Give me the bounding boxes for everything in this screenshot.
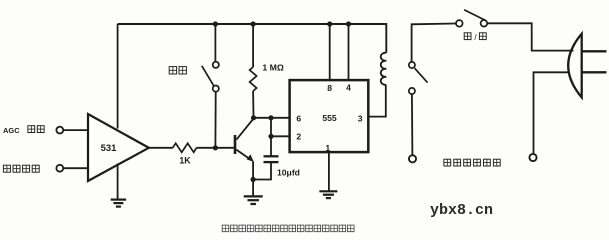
- wire pin 2: [271, 135, 291, 137]
- node junction rail/pin4: [346, 21, 351, 26]
- pin 2 label: [296, 132, 301, 142]
- node junction rail/pushbutton: [213, 21, 218, 26]
- wire pushbutton to node B: [214, 92, 216, 148]
- wire AGC input to op-amp: [63, 129, 88, 131]
- wire pin 1 to ground: [328, 152, 330, 191]
- node reference input terminal: [56, 165, 63, 172]
- pin 8 label: [327, 83, 332, 93]
- svg-text:4: 4: [346, 83, 351, 93]
- svg-text:1: 1: [325, 143, 330, 153]
- inductor K1 relay coil: [381, 53, 387, 85]
- label watermark ybx8.cn: [430, 202, 493, 219]
- svg-text:ybx8.cn: ybx8.cn: [430, 202, 493, 219]
- wire top supply rail: [118, 23, 386, 25]
- ground emitter: [244, 196, 263, 204]
- wire rail to pin 4: [348, 24, 350, 81]
- wire relay contact top: [412, 24, 456, 63]
- label pushbutton (按钮): [169, 67, 186, 74]
- svg-text:3: 3: [358, 114, 363, 124]
- label C1 value 10ufd: [277, 167, 300, 177]
- IC U2 555 timer body: [290, 80, 369, 152]
- pin 4 label: [346, 83, 351, 93]
- label caption (设置开关在电视台停止广播后立即断开): [222, 225, 354, 232]
- wire reference input to op-amp: [63, 167, 88, 169]
- wire node C to pin 6: [254, 117, 291, 119]
- wire junction down to capacitor: [270, 118, 272, 156]
- label on/off (通/断): [464, 33, 486, 42]
- node junction emitter/capacitor: [251, 177, 256, 182]
- capacitor C1 10ufd: [264, 156, 279, 162]
- svg-text:1K: 1K: [179, 156, 191, 166]
- switch S1 pushbutton: [202, 62, 219, 92]
- svg-text:8: 8: [327, 83, 332, 93]
- label reference voltage (参考电压): [3, 165, 39, 172]
- label R2 value 1 Mohm: [262, 63, 283, 73]
- node junction rail/pin8: [327, 21, 332, 26]
- wire pin 3 to coil: [368, 85, 386, 117]
- resistor R2 1M: [250, 67, 257, 91]
- wire op-amp output: [149, 147, 173, 149]
- pin 6 label: [296, 114, 301, 124]
- pin 1 label: [325, 143, 330, 153]
- connector P1 AC plug: [568, 34, 606, 98]
- wire rail to R2: [252, 24, 254, 67]
- op-amp U1 531: [88, 114, 149, 181]
- wire plug bottom to terminal: [534, 72, 570, 154]
- node junction C collector/R2: [251, 115, 256, 120]
- wire rail to relay coil: [385, 24, 388, 53]
- wire capacitor bottom to emitter node: [253, 162, 271, 179]
- ground op-amp: [111, 200, 127, 207]
- switch S2 on/off: [456, 10, 487, 27]
- svg-text:1 MΩ: 1 MΩ: [262, 63, 283, 73]
- wire R1 to base: [196, 147, 233, 149]
- transistor Q1: [234, 119, 254, 162]
- svg-text:6: 6: [296, 114, 301, 124]
- node junction rail/R2: [251, 21, 256, 26]
- pin 3 label: [358, 114, 363, 124]
- node input AGC terminal: [56, 127, 63, 134]
- svg-text:AGC: AGC: [3, 126, 20, 135]
- label R1 value 1K: [179, 156, 191, 166]
- svg-text:/: /: [474, 33, 477, 42]
- wire emitter down: [252, 161, 254, 196]
- svg-text:2: 2: [296, 132, 301, 142]
- node terminal TV power left: [409, 155, 416, 162]
- wire op-amp V+ supply: [117, 24, 119, 129]
- label to TV power (至电视机电源): [444, 159, 500, 166]
- switch K1-a relay contact: [409, 62, 428, 94]
- svg-text:531: 531: [101, 143, 118, 154]
- label AGC voltage (AGC 电压): [3, 126, 44, 135]
- wire contact to terminal: [411, 94, 414, 155]
- wire rail to pushbutton: [214, 24, 216, 62]
- wire op-amp V- to ground: [117, 164, 119, 200]
- node junction B pushbutton/base: [213, 145, 218, 150]
- wire R2 to node C: [252, 91, 254, 118]
- resistor R1 1K: [173, 143, 197, 152]
- node junction pin2 tap: [268, 134, 273, 139]
- svg-text:10μfd: 10μfd: [277, 167, 300, 177]
- ground 555 pin 1: [319, 191, 337, 198]
- wire S2 to plug top: [487, 23, 573, 50]
- node junction capacitor top: [268, 115, 273, 120]
- svg-text:555: 555: [322, 113, 337, 123]
- wire rail to pin 8: [329, 24, 331, 81]
- node terminal TV power right: [529, 154, 536, 161]
